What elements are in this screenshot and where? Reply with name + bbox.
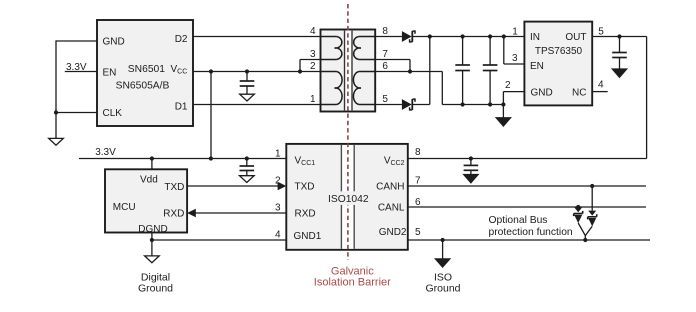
pin numbers U2 (505, 27, 604, 92)
ground (ISO, filled triangle) below GND2 (435, 259, 450, 268)
svg-text:4: 4 (275, 230, 281, 241)
svg-text:TXD: TXD (164, 182, 184, 193)
svg-text:3.3V: 3.3V (95, 147, 116, 158)
wire D2 to transformer pin 4 (193, 36, 321, 38)
transformer T1 primary winding top (pins 4-3) (321, 37, 342, 60)
wire GND2 bus (408, 239, 650, 241)
svg-text:7: 7 (415, 176, 421, 187)
svg-text:TPS76350: TPS76350 (535, 46, 583, 57)
capacitor C2 (bulk, left) (455, 34, 470, 106)
svg-text:NC: NC (572, 87, 586, 98)
svg-text:EN: EN (530, 61, 544, 72)
svg-text:EN: EN (103, 68, 117, 79)
node Vdd junction (150, 156, 154, 160)
svg-text:4: 4 (310, 26, 316, 37)
svg-text:5: 5 (415, 227, 421, 238)
net 3.3V (lower rail to Vcc1) (79, 147, 286, 158)
svg-text:3: 3 (275, 203, 281, 214)
label Optional Bus protection function (489, 215, 573, 238)
transformer T1 core (345, 31, 353, 111)
wire RXD (U4 to MCU) with arrow (187, 209, 286, 218)
svg-text:Optional Bus: Optional Bus (489, 215, 548, 226)
svg-text:IN: IN (530, 32, 540, 43)
wire secondary center tap (pin 6) to iso ground rail (375, 72, 503, 105)
wire left vertical (GND/CLK tie) (55, 40, 57, 138)
wire CLK pin of U1 (56, 112, 97, 114)
svg-text:1: 1 (275, 149, 281, 160)
IC U4 labels (294, 156, 407, 243)
wire transformer pin 3 tie to pin 2 (298, 60, 321, 74)
wire NC stub pin 4 (592, 91, 608, 93)
IC U3 MCU (105, 169, 187, 235)
wire transformer pin 5 to D4 (375, 104, 402, 106)
transformer T1 primary winding bottom (pins 2-1) (321, 72, 343, 105)
capacitor C4 (output) (612, 34, 627, 69)
svg-text:1: 1 (512, 27, 518, 38)
schottky diode D4 (rectifier, bottom) (402, 99, 415, 110)
schottky diode D3 (rectifier, top) (402, 31, 415, 42)
wire D1 to transformer pin 1 (193, 104, 321, 106)
svg-text:8: 8 (382, 26, 388, 37)
svg-text:DGND: DGND (138, 224, 167, 235)
capacitor C5 (Vcc1 decoupling) (240, 156, 255, 175)
capacitor C6 (Vcc2 decoupling) (464, 156, 479, 174)
svg-text:SN6501: SN6501 (128, 64, 165, 75)
IC U2 TPS76350 (524, 22, 592, 106)
svg-text:GND1: GND1 (294, 231, 322, 242)
ground (ISO, filled triangle) under U2 GND (496, 118, 511, 127)
wire D3 cathode to regulator IN rail (413, 36, 525, 38)
svg-text:ISO1042: ISO1042 (328, 194, 369, 205)
wire transformer pin 7 tie to pin 6 (375, 60, 412, 74)
svg-text:6: 6 (382, 61, 388, 72)
wire CANH bus (408, 185, 646, 187)
svg-text:OUT: OUT (565, 32, 586, 43)
svg-text:Isolation Barrier: Isolation Barrier (314, 276, 391, 288)
node riser junction (209, 156, 213, 160)
ground (ISO, filled triangle) under C6 (463, 174, 478, 183)
svg-text:CLK: CLK (103, 108, 123, 119)
transformer T1 pin numbers 4 3 2 1 / 8 7 6 5 (310, 26, 388, 105)
wire DGND drop (150, 233, 154, 256)
svg-text:GND: GND (531, 87, 553, 98)
isolation barrier (red dashed) (347, 4, 349, 260)
svg-text:D1: D1 (175, 102, 188, 113)
IC U4 ISO1042 (286, 144, 408, 250)
svg-text:GND2: GND2 (379, 227, 407, 238)
svg-text:GND: GND (103, 37, 125, 48)
wire TVS common to GND2 (578, 223, 592, 242)
wire GND pin of U1 to ground rail (56, 40, 97, 42)
svg-text:4: 4 (598, 80, 604, 91)
ground (digital, open triangle) under C5 (240, 176, 255, 183)
TVS diode D5 (CANL protection) (574, 205, 583, 223)
node Vcc / 3.3V riser junction (209, 69, 213, 73)
TVS diode D6 (CANH protection) (588, 184, 597, 227)
wire right vertical OUT to Vcc2 (646, 37, 648, 159)
wire Vcc of U1 to transformer center tap (193, 71, 321, 73)
capacitor C3 (bulk, right) (483, 34, 498, 106)
wire GND2 drop to ISO ground (441, 238, 445, 259)
svg-text:3: 3 (512, 53, 518, 64)
wire transformer pin 8 to D3 (375, 36, 402, 38)
wire TXD (MCU to U4) with arrow (187, 182, 286, 191)
ground (digital, open triangle) below MCU (145, 256, 160, 263)
svg-text:MCU: MCU (113, 202, 136, 213)
svg-text:8: 8 (415, 147, 421, 158)
svg-text:1: 1 (310, 94, 316, 105)
wire Vcc2 to regulator output (408, 158, 647, 160)
svg-text:Ground: Ground (138, 283, 173, 295)
transformer T1 (isolation) (321, 30, 376, 112)
node CLK/GND junction (54, 110, 58, 114)
wire CANL bus (408, 206, 646, 208)
wire 3.3V riser to lower rail (210, 72, 212, 159)
svg-text:7: 7 (382, 49, 388, 60)
transformer T1 secondary winding bottom (pins 6-5) (353, 72, 375, 105)
capacitor C1 (Vcc decoupling) (240, 69, 255, 94)
svg-text:D2: D2 (175, 34, 188, 45)
svg-text:5: 5 (382, 94, 388, 105)
svg-text:TXD: TXD (295, 181, 315, 192)
transformer T1 secondary winding top (pins 8-7) (354, 37, 376, 60)
wire TPS76350 EN tie to IN (502, 34, 525, 64)
svg-text:Vdd: Vdd (140, 175, 158, 186)
wire U2 OUT to right vertical (592, 36, 646, 38)
wire GND1 to digital ground (152, 239, 286, 241)
ground (ISO, filled triangle) under C4 (612, 69, 627, 78)
ground (digital, open triangle) under C1 (240, 94, 255, 101)
svg-text:2: 2 (310, 61, 316, 72)
wire D4 cathode riser to IN rail (413, 34, 432, 104)
svg-text:Ground: Ground (425, 283, 460, 295)
svg-text:RXD: RXD (163, 209, 184, 220)
svg-text:3: 3 (310, 49, 316, 60)
svg-text:2: 2 (505, 80, 511, 91)
label Digital Ground (138, 272, 173, 295)
label Galvanic Isolation Barrier (314, 265, 391, 288)
svg-text:CANL: CANL (378, 202, 405, 213)
net 3.3V (top supply label) (65, 62, 97, 73)
ground (digital, open triangle) top-left (49, 138, 64, 145)
svg-text:SN6505A/B: SN6505A/B (116, 81, 170, 92)
pin numbers U4 (275, 147, 421, 241)
wire TPS76350 GND to iso ground (501, 92, 524, 118)
IC U1 SN6501/SN6505A/B (97, 20, 193, 126)
svg-text:protection function: protection function (489, 227, 573, 238)
svg-text:CANH: CANH (376, 181, 404, 192)
svg-text:RXD: RXD (295, 208, 316, 219)
svg-text:2: 2 (275, 176, 281, 187)
wire Vdd drop (151, 159, 153, 170)
label ISO Ground (425, 272, 460, 295)
